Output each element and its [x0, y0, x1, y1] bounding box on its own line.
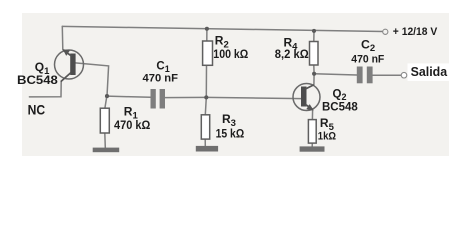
svg-text:15 kΩ: 15 kΩ	[216, 126, 245, 140]
svg-text:BC548: BC548	[17, 73, 58, 87]
svg-text:Salida: Salida	[411, 64, 448, 79]
svg-text:+ 12/18 V: + 12/18 V	[393, 26, 438, 38]
svg-text:1kΩ: 1kΩ	[318, 131, 336, 143]
svg-text:470 kΩ: 470 kΩ	[114, 118, 151, 132]
svg-text:100 kΩ: 100 kΩ	[213, 49, 248, 61]
svg-text:BC548: BC548	[322, 102, 358, 114]
svg-text:470 nF: 470 nF	[351, 54, 384, 66]
svg-text:470 nF: 470 nF	[143, 72, 179, 84]
svg-text:NC: NC	[28, 101, 45, 117]
svg-text:8,2 kΩ: 8,2 kΩ	[275, 49, 309, 61]
